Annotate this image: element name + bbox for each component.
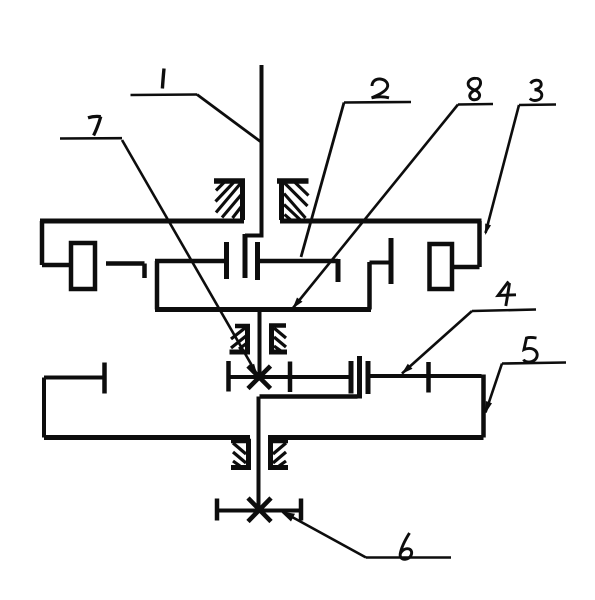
leader 8 arrowhead [293,298,303,309]
bearing block top-left [214,179,245,220]
coupling bar 3 [366,361,371,394]
carrier top line left [155,259,226,264]
housing left drop [40,221,45,265]
X1 mid tick [288,362,293,393]
housing left arm [42,263,70,268]
carrier bottom line [155,307,371,312]
carrier gear bar left [224,242,229,279]
label 6 digit [400,533,412,559]
sleeve line below [260,394,358,399]
leader line 3 [486,105,520,233]
ring gear 5 left arm [44,376,105,380]
X2 shaft line [216,509,302,513]
leader line 7 [122,140,257,374]
label 6 underline [366,556,451,559]
carrier gear bar right [255,242,260,280]
X2 left end tick [215,499,220,521]
carrier right arm [370,261,390,265]
X1 shaft line [227,375,349,379]
bearing block mid-right [269,324,287,353]
label 8 underline [458,103,493,106]
leader line 2 [301,103,344,258]
gear mesh cross X2 [248,498,271,522]
ring gear 5 left tick [102,363,107,394]
label 2 digit [372,79,389,98]
housing right drop [477,221,482,267]
leader 4 arrowhead [402,364,413,374]
label 3 underline [519,103,556,106]
label 3 digit [530,80,542,100]
ring gear 5 bottom right [268,435,484,440]
label 5 underline [502,363,566,364]
leader line 5 [486,364,503,413]
label 2 underline [344,101,411,104]
label 4 digit [498,282,516,307]
X2 right end tick [299,499,304,521]
leader 3 arrowhead [485,224,491,236]
leader line 8 [293,105,458,309]
leader line 1 [197,95,261,143]
carrier right tick [336,259,341,282]
leader 7 arrowhead [249,364,257,374]
label 4 underline [472,310,536,312]
sun gear 4 tick [426,362,431,393]
right brake piston rectangle [430,244,453,289]
label 7 digit [88,116,101,135]
X1 left end tick [226,361,231,392]
ring gear 5 left edge [42,378,46,438]
sun shaft 4 line [368,374,482,378]
left band element [106,264,145,279]
label 5 digit [524,337,538,362]
bearing block mid-left [230,325,251,353]
gear mesh cross X1 [248,366,271,389]
leader line 4 [402,311,472,374]
input shaft 1 [245,65,262,236]
label 7 underline [60,137,122,140]
leader line 6 [283,512,366,558]
bearing block top-right [277,179,309,221]
leader 5 arrowhead [485,401,492,414]
left brake piston rectangle [71,243,95,289]
ring gear 5 bottom left [44,435,250,440]
label 1 digit [162,69,164,89]
input sun gear bar [243,234,248,278]
label 8 digit [468,78,480,99]
carrier box left edge [155,261,160,310]
ring gear 5 right edge [481,375,486,438]
leader 6 arrowhead [281,512,296,522]
housing top plate right segment [280,219,482,224]
ring gear bar right [389,238,394,284]
bearing block bottom-right [268,440,288,470]
coupling bar 1 [349,361,354,394]
coupling bar 2 [357,356,362,399]
housing right arm [452,265,480,270]
housing top plate left segment [40,219,244,224]
carrier right post [367,262,372,310]
intermediate shaft [259,308,260,510]
carrier top line right [258,259,339,264]
label 1 underline [131,93,198,96]
bearing block bottom-left [231,440,251,470]
